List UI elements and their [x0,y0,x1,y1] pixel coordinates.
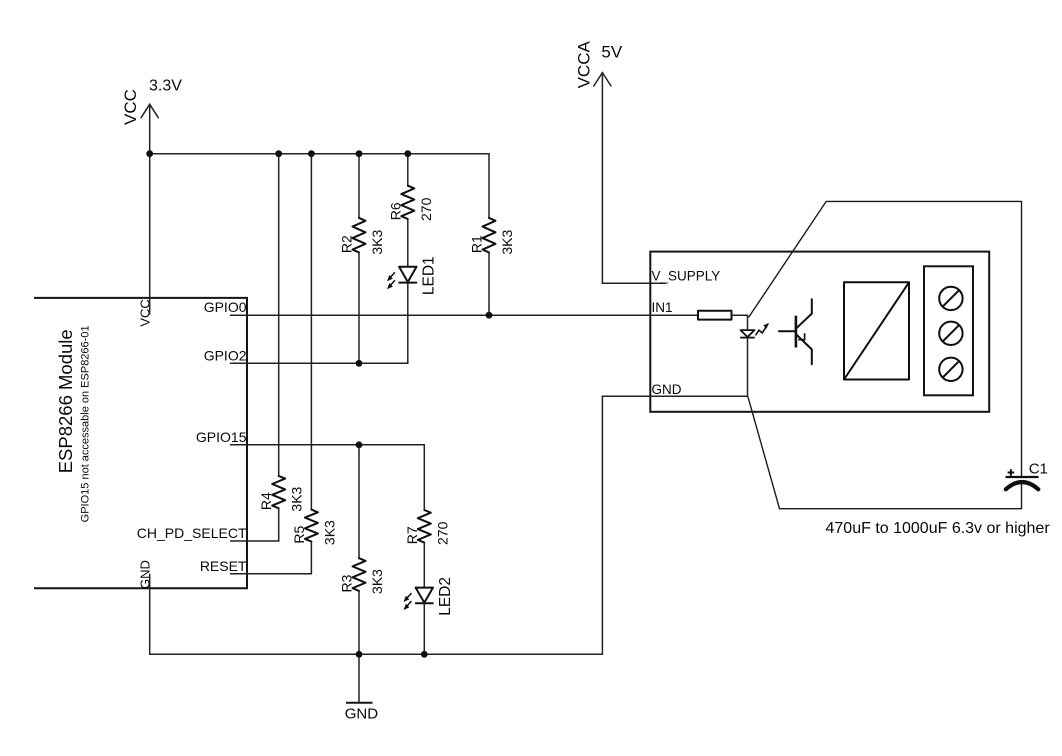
wire R6 top lead [407,154,409,186]
svg-text:LED1: LED1 [420,256,437,295]
svg-text:R1: R1 [469,235,485,253]
svg-text:R4: R4 [258,492,274,510]
svg-text:5V: 5V [601,43,622,62]
wire relay internal GND [650,395,747,397]
pin VCC label [137,299,152,326]
wire VCCA vertical [602,73,665,284]
svg-text:R7: R7 [404,526,420,544]
ESP8266 module U1 body [34,298,247,588]
wire GPIO0 net (ESP to relay IN1) [231,314,651,316]
svg-text:R2: R2 [339,235,355,253]
wire R4 top lead [278,154,280,476]
svg-text:3K3: 3K3 [369,230,385,255]
opto transistor Q1 [779,299,812,364]
svg-text:GPIO15 not accessable on ESP82: GPIO15 not accessable on ESP8266-01 [79,325,91,522]
svg-text:VCCA: VCCA [575,41,594,89]
junction dot 3 [308,150,315,157]
wire opto LED cathode to GND [747,338,749,397]
svg-text:3K3: 3K3 [499,230,515,255]
svg-text:R3: R3 [339,574,355,592]
wire R1 top lead [488,154,490,218]
resistor R5 3K3 [291,510,338,545]
wire R1 bottom lead [488,252,490,315]
junction dot 1 [146,150,153,157]
junction dot 5 [404,150,411,157]
resistor R7 270 [404,510,451,545]
wire LED1 cathode lead [407,283,409,364]
wire R2 top lead [358,154,360,218]
wire R7 bottom lead [423,543,425,588]
pin GND label [137,560,152,589]
svg-text:RESET: RESET [200,558,247,574]
svg-text:CH_PD_SELECT: CH_PD_SELECT [137,525,247,541]
svg-text:GPIO0: GPIO0 [204,299,247,315]
junction dot 2 [275,150,282,157]
wire R3 bottom lead [358,591,360,654]
wire R6 bottom lead [407,219,409,267]
svg-text:GPIO15: GPIO15 [196,429,247,445]
resistor R6 270 [387,186,434,221]
junction dot 6 [486,312,493,319]
wire resistor to opto node [732,315,748,330]
opto-coupler LED [740,323,769,338]
wire VCC rail [150,153,489,155]
callout outline to C1 [748,201,1022,508]
capacitor C1 [1006,461,1048,490]
relay module box [650,252,989,412]
wire RESET net [231,573,312,575]
svg-text:R6: R6 [387,202,403,220]
resistor R3 3K3 [339,558,386,594]
svg-text:LED2: LED2 [437,577,454,616]
wire IN1 to series resistor [650,314,698,316]
power symbol VCC 3.3V [121,78,182,125]
svg-text:470uF to 1000uF 6.3v or higher: 470uF to 1000uF 6.3v or higher [826,520,1051,537]
svg-text:ESP8266 Module: ESP8266 Module [55,329,76,473]
svg-text:C1: C1 [1029,461,1048,478]
terminal block J1 [924,266,973,395]
wire GPIO2 net [231,362,408,364]
svg-text:R5: R5 [291,525,307,543]
svg-text:3K3: 3K3 [369,569,385,594]
wire R5 top lead [310,154,312,510]
pin RESET label [200,558,247,574]
wire GND rail [150,574,603,654]
relay pin V_SUPPLY [652,268,721,283]
resistor R2 3K3 [339,218,386,255]
pin GPIO0 label [204,299,247,315]
wire relay GND to rail [602,396,650,654]
svg-text:IN1: IN1 [652,300,673,315]
svg-text:3.3V: 3.3V [149,78,182,95]
svg-text:GPIO2: GPIO2 [204,347,247,363]
svg-text:GND: GND [652,382,682,397]
relay pin GND [652,382,682,397]
relay coil K1 [844,282,909,379]
pin GPIO2 label [204,347,247,363]
svg-text:V_SUPPLY: V_SUPPLY [652,268,721,283]
svg-text:270: 270 [418,197,434,221]
svg-text:VCC: VCC [121,89,140,125]
wire LED2 cathode lead [423,603,425,654]
junction dot 9 [356,651,363,658]
LED LED2 [404,577,454,616]
svg-text:270: 270 [434,521,450,545]
series resistor (box style) [698,311,732,320]
relay pin IN1 [652,300,673,315]
wire R2 bottom lead [358,252,360,363]
wire GPIO15 net [231,444,425,446]
junction dot 8 [356,441,363,448]
svg-text:3K3: 3K3 [321,520,337,545]
wire R5 bottom lead [310,542,312,574]
note text for C1 [826,520,1051,537]
pin CH_PD_SELECT label [137,525,247,541]
svg-text:GND: GND [345,706,379,723]
junction dot 4 [356,150,363,157]
resistor R4 3K3 [258,476,305,512]
wire R3 top lead [358,445,360,558]
junction dot 7 [356,360,363,367]
wire R4 bottom lead [278,508,280,541]
resistor R1 3K3 [469,218,516,255]
pin GPIO15 label [196,429,247,445]
ground symbol [345,654,379,722]
junction dot 10 [421,651,428,658]
wire R7 top lead [423,445,425,510]
svg-text:3K3: 3K3 [289,486,305,511]
wire CH_PD_SELECT net [231,540,279,542]
power symbol VCCA 5V [575,41,623,89]
LED LED1 [387,256,437,295]
wire VCC vertical (arrow to ESP VCC pin) [149,104,151,314]
